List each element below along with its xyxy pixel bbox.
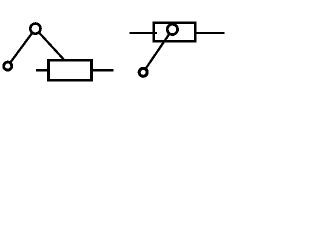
body box S2 right edge [194,22,197,43]
wire left lead S2 [130,32,157,34]
body box S1 left edge [47,59,50,82]
wire right lead S2 [195,32,224,34]
body box S1 right edge [90,59,93,82]
pivot circle S2 [167,24,177,34]
wire lever arm S1 pivot-to-roller [8,29,36,67]
switch S2 (right lever-roller limit switch) [130,22,225,77]
roller circle S1 [4,62,12,70]
wire lever arm S1 pivot-to-body [35,29,64,61]
body box S1 top edge [47,59,93,62]
body box S2 bottom edge [153,40,197,43]
wire lever arm S2 pivot-to-roller [143,29,172,72]
roller circle S2 [139,68,147,76]
wire left lead S1 [36,69,49,71]
pivot circle S1 [30,24,40,34]
body box S1 bottom edge [47,79,93,82]
wire right lead S1 [91,69,114,71]
body box S2 top edge [153,22,197,24]
switch S1 (left lever-roller limit switch) [4,24,114,82]
body box S2 left edge [153,22,155,43]
